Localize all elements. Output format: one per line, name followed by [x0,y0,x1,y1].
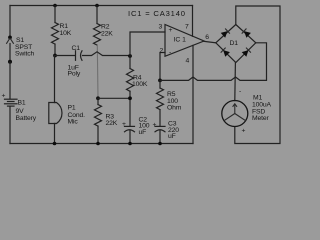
node top rail / R2 [95,4,99,8]
wire pin 4 to ground rail [192,45,194,143]
wire top supply rail [10,5,193,7]
resistor R5 [157,80,164,126]
svg-text:IC1 = CA3140: IC1 = CA3140 [128,9,185,18]
wire feedback to bridge with hops [160,43,267,81]
svg-text:Mic: Mic [68,118,79,125]
node mic ground [53,142,57,146]
pin 2 [160,48,164,55]
svg-text:7: 7 [185,24,189,31]
svg-text:+: + [153,121,157,128]
svg-text:Ohm: Ohm [167,104,182,111]
svg-text:2: 2 [160,48,164,55]
svg-text:100uA: 100uA [252,101,272,108]
svg-text:IC 1: IC 1 [174,36,187,43]
svg-text:100K: 100K [132,81,148,88]
node R2 / R3 divider [96,96,100,100]
svg-text:+: + [169,27,173,34]
meter plus mark [242,127,246,134]
svg-text:D1: D1 [230,40,239,47]
wire divider to R4/C2 node [98,97,130,99]
svg-text:+: + [242,127,246,134]
svg-text:6: 6 [205,34,209,41]
wire op-amp output to bridge [204,41,216,43]
wire pin 7 to supply rail [192,6,194,37]
svg-text:Battery: Battery [16,115,37,122]
svg-text:22K: 22K [101,31,113,38]
resistor R4 [127,56,134,126]
label R4 100K [132,74,148,88]
label C2 100 uF [139,116,150,136]
svg-text:4: 4 [186,58,190,65]
svg-text:uF: uF [168,133,176,140]
diode D1c (bottom-left) [221,48,230,57]
svg-text:10K: 10K [60,30,72,37]
capacitor C2 [122,121,135,144]
label R3 22K [106,113,118,127]
op-amp IC1 [165,25,204,57]
label M1 100uA FSD Meter [252,94,272,122]
svg-text:R5: R5 [167,91,176,98]
node top rail / R1 [53,4,57,8]
node R4 / C2 [128,96,132,100]
wire pin 2 input [160,53,165,81]
label IC1 = CA3140 [128,9,185,18]
svg-text:R1: R1 [60,23,69,30]
svg-text:C1: C1 [72,45,81,52]
wire switch to battery [9,62,11,99]
label R2 22K [101,24,113,38]
wire bottom ground rail [10,143,193,145]
svg-text:22K: 22K [106,120,118,127]
node pin2 / R5 junction [158,79,162,83]
svg-text:M1: M1 [253,94,263,101]
wire bridge top loop [235,6,280,144]
svg-text:Switch: Switch [15,50,34,57]
pin 6 [205,34,209,41]
capacitor C1 [76,51,83,61]
meter minus mark [239,88,241,95]
switch S1 [6,36,13,64]
svg-text:-: - [169,49,171,56]
wire R1 top lead [54,6,56,23]
label S1 SPST Switch [15,37,34,57]
resistor R1 [52,23,59,45]
capacitor C3 [153,121,166,143]
wire battery to bottom rail [9,107,11,144]
label B1 9V Battery [16,99,37,122]
meter M1 [222,101,248,127]
diode D1b (top-right) [242,28,251,37]
label R1 10K [60,23,72,37]
node C2 ground [128,142,132,146]
svg-text:B1: B1 [18,99,26,106]
svg-text:R2: R2 [101,24,110,31]
bridge rectifier D1 [216,25,256,63]
svg-text:Poly: Poly [68,71,81,78]
wire pin 3 input [130,32,165,56]
wire R1 bottom lead [54,44,56,55]
resistor R3 [95,98,102,143]
wire bridge bottom to meter [234,63,237,101]
svg-text:uF: uF [139,129,147,136]
pin 3 [159,24,163,31]
wire R2 bottom lead down to divider node [96,45,99,97]
node C1 / R4 / pin3 junction [128,54,132,58]
label C1 1uF Poly [68,45,81,78]
svg-text:Meter: Meter [252,115,270,122]
microphone P1 [49,56,62,144]
pin 4 [186,58,190,65]
wire R2 top lead [96,6,98,24]
battery B1 [2,93,18,107]
wire left column top (rail to switch) [9,6,11,37]
svg-text:+: + [122,121,126,128]
svg-text:3: 3 [159,24,163,31]
wire C1 left lead [55,55,75,57]
node R3 ground [96,142,100,146]
diode D1a (left-top) [221,28,230,37]
resistor R2 [94,24,101,46]
svg-text:P1: P1 [68,104,76,111]
label P1 Cond. Mic [68,104,86,125]
wire C1 right lead with hop over R2 lead [83,52,131,56]
pin 7 [185,24,189,31]
svg-text:-: - [239,88,241,95]
svg-text:9V: 9V [16,108,25,115]
label R5 100 Ohm [167,91,182,112]
svg-text:+: + [2,93,6,100]
node C3 ground [158,142,162,146]
node R1 / C1 / mic junction [53,54,57,58]
diode D1d (bottom-right) [242,48,251,57]
label C3 220 uF [168,121,179,141]
